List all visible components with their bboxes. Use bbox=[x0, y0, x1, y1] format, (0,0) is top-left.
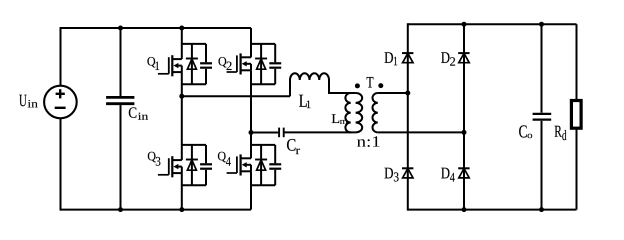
wire left leg lower bbox=[60, 118, 62, 210]
transistor Q2 bbox=[227, 28, 282, 133]
label Q3 3 bbox=[156, 157, 161, 166]
inductor Lm bbox=[345, 93, 350, 132]
label Cr r bbox=[296, 149, 300, 155]
diode D1 bbox=[402, 23, 413, 210]
node Q3 bottom bbox=[179, 207, 184, 212]
wire output top rail bbox=[408, 23, 577, 25]
node D2 top bbox=[462, 22, 467, 27]
label Q2 2 bbox=[226, 62, 231, 70]
transformer T primary bbox=[356, 93, 363, 132]
transistor Q4 bbox=[227, 133, 282, 210]
diode D3 bbox=[402, 168, 413, 178]
wire node A rail bbox=[182, 95, 290, 97]
transformer dot secondary bbox=[378, 83, 383, 88]
label D2 2 bbox=[450, 57, 455, 65]
label Rd d bbox=[562, 130, 566, 140]
node B bbox=[249, 130, 254, 135]
label Cr C bbox=[287, 139, 295, 151]
inductor L1 bbox=[290, 73, 356, 96]
node Co bottom bbox=[539, 207, 544, 212]
label D4 D bbox=[441, 168, 449, 179]
diode D2 bbox=[458, 24, 469, 209]
voltage source U_in bbox=[44, 86, 77, 119]
label Lm L bbox=[332, 114, 340, 123]
wire secondary top bbox=[378, 92, 408, 94]
node Cin top bbox=[118, 26, 123, 31]
node Cin bottom bbox=[118, 207, 123, 212]
label n:1 bbox=[357, 136, 380, 147]
label Q2 Q bbox=[219, 57, 227, 67]
node secondary bottom bbox=[462, 130, 467, 135]
wire input bottom rail bbox=[61, 209, 252, 211]
node Q1 top bbox=[179, 26, 184, 31]
capacitor Cr bbox=[279, 128, 356, 138]
node secondary top bbox=[405, 91, 410, 96]
label Lm m bbox=[340, 120, 348, 124]
label Q4 Q bbox=[218, 152, 226, 162]
resistor Rd bbox=[571, 24, 581, 209]
label D1 1 bbox=[394, 57, 397, 65]
wire output bottom rail bbox=[408, 209, 577, 211]
capacitor C_in bbox=[106, 28, 134, 210]
label Co o bbox=[528, 134, 533, 138]
wire node B to Cr bbox=[251, 132, 278, 134]
label Uin U bbox=[19, 95, 26, 107]
wire secondary bottom bbox=[378, 131, 464, 133]
label D4 4 bbox=[450, 173, 455, 182]
transistor Q3 bbox=[158, 96, 212, 209]
label D3 3 bbox=[394, 172, 399, 181]
label Co C bbox=[519, 125, 527, 137]
label T bbox=[367, 77, 374, 88]
label L1 1 bbox=[307, 101, 311, 109]
label Q4 4 bbox=[226, 157, 231, 166]
diode D4 bbox=[458, 168, 469, 178]
node D4 bottom bbox=[462, 207, 467, 212]
label Uin in bbox=[28, 100, 38, 107]
label Q3 Q bbox=[148, 152, 156, 162]
transistor Q1 bbox=[158, 28, 212, 96]
node A bbox=[179, 94, 184, 99]
label Rd R bbox=[555, 126, 562, 137]
label Cin C bbox=[129, 107, 137, 117]
capacitor Co bbox=[533, 24, 552, 209]
label Q1 1 bbox=[155, 62, 159, 70]
label D2 D bbox=[441, 52, 449, 63]
node Co top bbox=[539, 22, 544, 27]
label Cin in bbox=[138, 113, 148, 120]
wire input top rail bbox=[61, 27, 252, 29]
label D3 D bbox=[385, 168, 393, 179]
label Q1 Q bbox=[147, 57, 155, 67]
wire left leg upper bbox=[60, 27, 62, 86]
transformer T secondary bbox=[372, 93, 377, 132]
transformer dot primary bbox=[355, 83, 360, 88]
label L1 L bbox=[299, 95, 307, 107]
label D1 D bbox=[385, 52, 393, 63]
